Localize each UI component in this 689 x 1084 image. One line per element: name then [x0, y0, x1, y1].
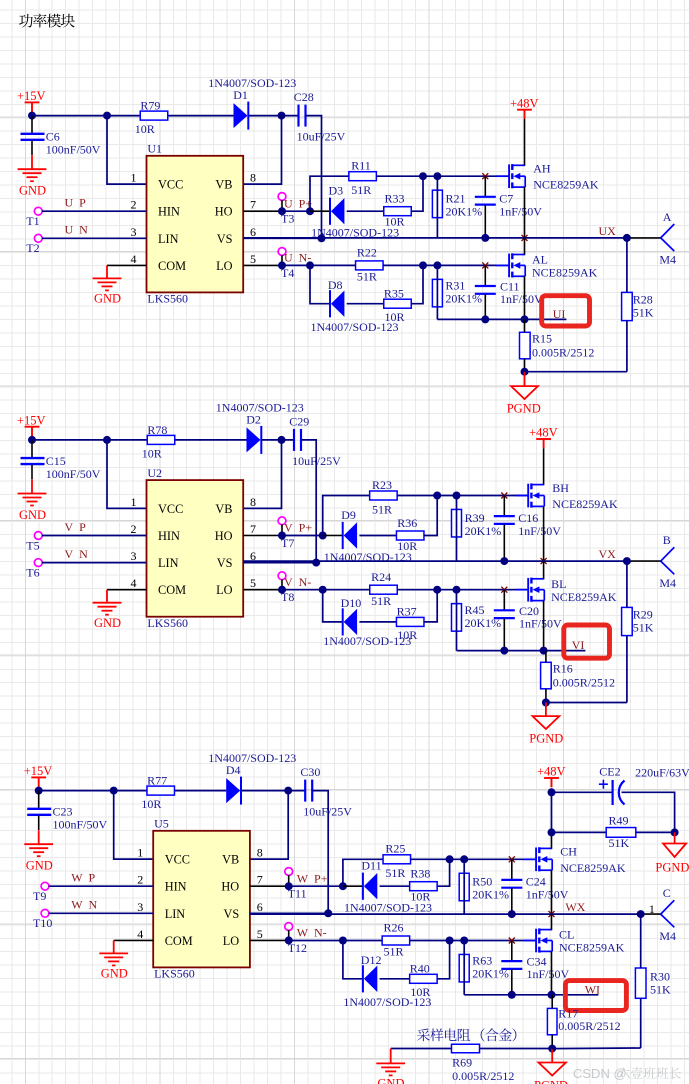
- op-amp driver U2 LKS560: [147, 480, 244, 617]
- transistor BH (NMOS high): [515, 483, 544, 507]
- wire bootstrap to VS: [301, 440, 316, 563]
- svg-text:LIN: LIN: [165, 907, 186, 921]
- power +48V (V phase): [536, 439, 551, 448]
- svg-text:NCE8259AK: NCE8259AK: [552, 497, 618, 511]
- wire sense rail UI: [437, 318, 566, 320]
- svg-text:GND: GND: [377, 1077, 404, 1084]
- svg-text:D11: D11: [361, 859, 381, 873]
- connector C M4: [661, 900, 675, 927]
- wire VB pin8: [243, 440, 281, 509]
- capacitor CE2 (polarized): [599, 780, 625, 805]
- wire diode to cap: [262, 439, 294, 441]
- svg-text:GND: GND: [94, 292, 121, 306]
- wire LO pin5: [243, 255, 282, 265]
- node VX/R bleed (V phase): [623, 557, 631, 565]
- svg-text:1N4007/SOD-123: 1N4007/SOD-123: [323, 634, 411, 648]
- svg-text:U1: U1: [147, 142, 162, 156]
- svg-text:3: 3: [137, 900, 143, 914]
- pin 5 LO: [216, 252, 256, 273]
- node bootstrap/VS (V phase): [312, 559, 320, 567]
- svg-text:WX: WX: [565, 900, 585, 914]
- node CgL bottom (W phase): [508, 991, 516, 999]
- svg-text:AH: AH: [533, 162, 551, 176]
- svg-text:51R: 51R: [372, 502, 392, 516]
- node QL source (U phase): [521, 315, 529, 323]
- svg-text:T5: T5: [26, 538, 39, 552]
- svg-text:10R: 10R: [135, 122, 155, 136]
- svg-text:1: 1: [137, 846, 143, 860]
- svg-text:VCC: VCC: [165, 853, 190, 867]
- svg-text:8: 8: [250, 495, 256, 509]
- junction marker QH source (W phase): [549, 911, 555, 917]
- node VB tap (V phase): [278, 436, 286, 444]
- wire RpL to rail: [463, 941, 465, 995]
- node LO riser (U phase): [306, 261, 314, 269]
- svg-text:5: 5: [257, 927, 263, 941]
- node gateL left (U phase): [419, 261, 427, 269]
- wire R49 line: [552, 831, 675, 833]
- diode D12: [363, 965, 377, 992]
- node LO riser (W phase): [339, 937, 347, 945]
- power +15V (V phase): [25, 427, 40, 440]
- svg-text:LO: LO: [223, 934, 240, 948]
- wire HO to riser: [282, 535, 323, 537]
- node RpH top (V phase): [453, 492, 461, 500]
- svg-text:R22: R22: [357, 246, 377, 260]
- svg-text:B: B: [663, 533, 671, 547]
- wire LO down to DL: [310, 265, 330, 303]
- wire HO to DH: [310, 210, 330, 212]
- svg-text:D4: D4: [226, 763, 241, 777]
- svg-text:R33: R33: [385, 192, 405, 206]
- wire sense rail WI: [464, 994, 598, 996]
- wire diode to cap: [249, 115, 299, 117]
- svg-text:PGND: PGND: [529, 732, 563, 746]
- pin 3 LIN: [137, 900, 185, 921]
- capacitor C24: [501, 859, 522, 914]
- wire HO pin7: [243, 200, 282, 211]
- svg-text:BH: BH: [552, 481, 569, 495]
- wire riser to gateH line: [323, 496, 370, 536]
- svg-text:C29: C29: [289, 414, 309, 428]
- wire VS pin6: [243, 237, 321, 239]
- svg-text:LO: LO: [216, 583, 233, 597]
- node RpL top (U phase): [433, 261, 441, 269]
- svg-text:1N4007/SOD-123: 1N4007/SOD-123: [216, 400, 304, 414]
- svg-text:R25: R25: [385, 842, 405, 856]
- svg-text:5: 5: [250, 576, 256, 590]
- svg-text:4: 4: [131, 252, 137, 266]
- wire +48V to CE2: [552, 791, 612, 793]
- svg-text:LKS560: LKS560: [154, 967, 195, 981]
- wire source QH to UX: [543, 506, 545, 561]
- wire RpL to rail: [436, 265, 438, 319]
- node HO riser (W phase): [339, 882, 347, 890]
- svg-text:M4: M4: [659, 576, 676, 590]
- svg-text:R63: R63: [472, 954, 492, 968]
- svg-text:4: 4: [137, 927, 143, 941]
- ground GND (sense): [376, 1049, 405, 1076]
- svg-text:V P: V P: [65, 520, 87, 534]
- node HO riser (U phase): [306, 207, 314, 215]
- svg-text:D12: D12: [361, 953, 382, 967]
- testpoint T4: [278, 248, 286, 256]
- wire source QH to UX: [551, 870, 553, 914]
- svg-text:R69: R69: [452, 1056, 472, 1070]
- node PGND (U phase): [521, 368, 529, 376]
- svg-text:R38: R38: [410, 867, 430, 881]
- svg-text:1N4007/SOD-123: 1N4007/SOD-123: [344, 901, 432, 915]
- svg-text:PGND: PGND: [507, 402, 541, 416]
- svg-text:R78: R78: [147, 423, 167, 437]
- svg-text:1N4007/SOD-123: 1N4007/SOD-123: [208, 751, 296, 765]
- svg-text:CSDN @: CSDN @: [573, 1066, 627, 1081]
- node CgH bottom (V phase): [500, 557, 508, 565]
- node RpH top (U phase): [433, 172, 441, 180]
- wire VX rail: [243, 560, 627, 562]
- svg-text:+48V: +48V: [510, 96, 539, 110]
- junction marker QH source (V phase): [541, 558, 547, 564]
- node LO (W phase): [285, 936, 293, 944]
- svg-text:GND: GND: [101, 967, 128, 981]
- node RpH top (W phase): [460, 855, 468, 863]
- node CgL bottom (V phase): [500, 647, 508, 655]
- node CgH bottom (U phase): [481, 234, 489, 242]
- resistor R79: [140, 111, 168, 120]
- power +48V (U phase): [517, 110, 532, 119]
- wire RgL right: [397, 589, 437, 591]
- node +15V/C (W phase): [35, 787, 43, 795]
- svg-text:C23: C23: [53, 805, 73, 819]
- junction marker CL gate cap (W phase): [509, 938, 515, 944]
- svg-text:R31: R31: [445, 279, 465, 293]
- wire drain QL to UX: [543, 561, 545, 579]
- svg-text:V N: V N: [65, 547, 89, 561]
- capacitor C29: [294, 429, 301, 451]
- wire RsH to junction riser: [411, 176, 423, 211]
- svg-text:V P+: V P+: [284, 521, 312, 535]
- node HO (W phase): [285, 882, 293, 890]
- svg-text:+15V: +15V: [24, 764, 53, 778]
- wire COM to ground: [107, 264, 147, 266]
- testpoint T3: [278, 193, 286, 201]
- svg-text:VB: VB: [222, 853, 239, 867]
- wire gateH line: [423, 175, 509, 177]
- wire VCC pin1: [107, 116, 147, 185]
- svg-text:1nF/50V: 1nF/50V: [519, 616, 562, 630]
- svg-text:U2: U2: [147, 466, 162, 480]
- svg-text:2: 2: [137, 873, 143, 887]
- resistor R49 (bleed): [606, 828, 636, 838]
- svg-text:VCC: VCC: [158, 178, 183, 192]
- svg-text:2: 2: [131, 522, 137, 536]
- wire VX to R29 to PGND: [626, 561, 628, 702]
- svg-text:HO: HO: [215, 529, 233, 543]
- pin 8 VB: [222, 846, 263, 867]
- junction marker CH gate cap (V phase): [501, 493, 507, 499]
- node R49 left (W): [548, 828, 556, 836]
- wire HIN net U P: [42, 210, 147, 212]
- wire +15V rail: [32, 115, 234, 117]
- svg-text:U5: U5: [154, 817, 169, 831]
- svg-text:T9: T9: [33, 889, 46, 903]
- wire RpL to rail: [456, 590, 458, 651]
- svg-text:R45: R45: [465, 603, 485, 617]
- node gateL left (W phase): [446, 937, 454, 945]
- wire R69 line: [391, 1048, 551, 1050]
- svg-text:C: C: [663, 886, 671, 900]
- svg-text:51R: 51R: [385, 866, 405, 880]
- resistor R11: [349, 172, 377, 181]
- svg-text:C15: C15: [46, 454, 66, 468]
- diode D9: [343, 522, 357, 549]
- junction marker CL gate cap (U phase): [482, 262, 488, 268]
- diode D1: [234, 102, 249, 130]
- connector B M4: [661, 547, 675, 574]
- wire HO to DH: [323, 535, 343, 537]
- capacitor C11: [475, 265, 496, 319]
- svg-text:R16: R16: [553, 662, 573, 676]
- svg-text:LO: LO: [216, 259, 233, 273]
- wire VB pin8: [243, 116, 281, 185]
- diode D2: [247, 426, 262, 454]
- power ground PGND (W phase): [539, 1049, 566, 1076]
- wire VB pin8: [250, 791, 288, 860]
- resistor R40: [410, 974, 438, 983]
- svg-text:0.005R/2512: 0.005R/2512: [553, 676, 615, 690]
- wire drain QH: [524, 119, 526, 165]
- svg-text:100nF/50V: 100nF/50V: [46, 467, 101, 481]
- svg-text:51K: 51K: [650, 982, 671, 996]
- svg-text:R23: R23: [372, 478, 392, 492]
- svg-text:LKS560: LKS560: [147, 292, 188, 306]
- wire PGND link: [525, 371, 627, 373]
- power +15V (W phase): [31, 777, 46, 790]
- wire RpH to UX rail: [436, 176, 438, 238]
- svg-text:GND: GND: [19, 508, 46, 522]
- svg-text:20K1%: 20K1%: [472, 888, 509, 902]
- wire LIN net V N: [42, 562, 147, 564]
- capacitor C16: [494, 496, 515, 562]
- wire UX to R28 to PGND: [626, 238, 628, 372]
- wire diode to cap: [242, 790, 306, 792]
- svg-text:T2: T2: [26, 241, 39, 255]
- capacitor C7: [475, 176, 496, 238]
- wire UX to connector: [627, 237, 661, 239]
- svg-text:1nF/50V: 1nF/50V: [527, 967, 570, 981]
- node VCC tap (W phase): [110, 787, 118, 795]
- wire WX to connector: [641, 913, 661, 915]
- svg-text:R37: R37: [397, 605, 417, 619]
- resistor R38: [410, 882, 438, 891]
- svg-text:R50: R50: [472, 875, 492, 889]
- diode D4: [226, 777, 241, 805]
- node bootstrap/VS (W phase): [324, 909, 332, 917]
- resistor R36: [396, 531, 424, 540]
- power +48V (W phase): [544, 778, 559, 787]
- wire RsL to junction riser: [424, 590, 437, 622]
- svg-text:51K: 51K: [633, 621, 654, 635]
- svg-text:T10: T10: [33, 916, 52, 930]
- svg-text:AL: AL: [532, 253, 548, 267]
- wire DH to RsH: [359, 535, 396, 537]
- svg-text:20K1%: 20K1%: [465, 524, 502, 538]
- wire 48V node to R49 node: [551, 792, 553, 832]
- wire HIN net W P: [49, 885, 154, 887]
- testpoint T10: [41, 909, 49, 917]
- pin 4 COM: [131, 576, 187, 597]
- node CgH bottom (W phase): [508, 910, 516, 918]
- wire gateL line: [437, 589, 527, 591]
- svg-text:R49: R49: [609, 813, 629, 827]
- svg-text:VI: VI: [572, 638, 585, 652]
- wire RsL to junction riser: [437, 941, 449, 979]
- capacitor C23: [27, 791, 51, 830]
- capacitor C30: [305, 780, 312, 802]
- svg-text:VS: VS: [217, 232, 233, 246]
- svg-text:C30: C30: [300, 765, 320, 779]
- wire UX rail: [243, 237, 627, 239]
- svg-text:+15V: +15V: [17, 413, 46, 427]
- svg-text:PGND: PGND: [655, 861, 689, 875]
- wire drain QH: [551, 832, 553, 848]
- pin 8 VB: [215, 495, 256, 516]
- label 采样电阻（合金）: [417, 1028, 516, 1041]
- wire RgL left: [343, 940, 382, 942]
- svg-text:UX: UX: [599, 224, 617, 238]
- resistor R77: [147, 786, 175, 795]
- transistor CL (NMOS low): [523, 928, 552, 952]
- resistor R31: [432, 279, 442, 307]
- capacitor C15: [21, 440, 45, 479]
- wire HO pin7: [243, 524, 282, 535]
- svg-text:1N4007/SOD-123: 1N4007/SOD-123: [208, 76, 296, 90]
- capacitor C6: [21, 116, 45, 155]
- node gateH left (W phase): [446, 855, 454, 863]
- wire VCC pin1: [107, 440, 147, 509]
- svg-text:NCE8259AK: NCE8259AK: [559, 941, 625, 955]
- node HO (U phase): [278, 207, 286, 215]
- ground GND (U phase left): [18, 155, 47, 181]
- svg-text:VS: VS: [223, 907, 239, 921]
- testpoint T2: [34, 234, 42, 242]
- svg-text:1N4007/SOD-123: 1N4007/SOD-123: [343, 995, 431, 1009]
- pin 1 VCC: [137, 846, 190, 867]
- svg-text:GND: GND: [94, 616, 121, 630]
- svg-text:D10: D10: [341, 596, 362, 610]
- node bootstrap/VS (U phase): [318, 234, 326, 242]
- pin 7 HO: [221, 873, 262, 894]
- wire PGND link V: [546, 702, 627, 704]
- svg-text:1nF/50V: 1nF/50V: [500, 292, 543, 306]
- svg-text:R79: R79: [140, 99, 160, 113]
- pin 3 LIN: [131, 225, 179, 246]
- wire source QL to sense rail: [543, 601, 545, 651]
- svg-text:VCC: VCC: [158, 502, 183, 516]
- svg-text:1nF/50V: 1nF/50V: [499, 205, 542, 219]
- svg-text:R26: R26: [384, 921, 404, 935]
- wire bootstrap to VS: [312, 791, 328, 914]
- node WX/R bleed (W phase): [637, 910, 645, 918]
- svg-text:51R: 51R: [357, 270, 377, 284]
- node gateH left (U phase): [419, 172, 427, 180]
- node VCC tap (U phase): [103, 112, 111, 120]
- svg-text:1nF/50V: 1nF/50V: [526, 888, 569, 902]
- svg-text:R39: R39: [465, 511, 485, 525]
- node HO riser (V phase): [319, 532, 327, 540]
- op-amp driver U1 LKS560: [147, 156, 244, 293]
- svg-text:COM: COM: [165, 934, 193, 948]
- wire VS pin6: [250, 912, 328, 914]
- pin 4 COM: [137, 927, 193, 948]
- transistor AL (NMOS low): [496, 253, 525, 277]
- svg-text:VB: VB: [215, 178, 232, 192]
- svg-text:W P: W P: [71, 871, 95, 885]
- pin 7 HO: [215, 522, 256, 543]
- svg-text:LIN: LIN: [158, 556, 179, 570]
- resistor R22: [356, 261, 384, 270]
- svg-text:D3: D3: [329, 184, 344, 198]
- svg-text:R15: R15: [532, 332, 552, 346]
- svg-text:5: 5: [250, 252, 256, 266]
- svg-text:7: 7: [257, 873, 263, 887]
- diode D10: [343, 608, 357, 635]
- wire riser to gateH line: [310, 176, 349, 211]
- node QL source (W phase): [548, 991, 556, 999]
- wire LO down to DL: [323, 590, 343, 622]
- wire LO pin5: [243, 579, 282, 589]
- wire R30 to PGND node: [552, 1047, 641, 1050]
- svg-text:R28: R28: [633, 293, 653, 307]
- ground GND (U phase COM): [93, 265, 122, 290]
- pin 2 HIN: [131, 198, 180, 219]
- pin 5 LO: [216, 576, 256, 597]
- svg-text:R24: R24: [371, 570, 391, 584]
- node CgL bottom (U phase): [481, 315, 489, 323]
- svg-text:C7: C7: [499, 192, 513, 206]
- node VB tap (W phase): [284, 787, 292, 795]
- node LO (U phase): [278, 261, 286, 269]
- svg-text:HO: HO: [215, 205, 233, 219]
- resistor R23: [370, 491, 398, 500]
- pin 6 VS: [223, 900, 262, 921]
- transistor CH (NMOS high): [523, 847, 552, 871]
- node +15V/C (U phase): [28, 112, 36, 120]
- svg-text:VB: VB: [215, 502, 232, 516]
- node HO (V phase): [278, 532, 286, 540]
- svg-text:1N4007/SOD-123: 1N4007/SOD-123: [311, 320, 399, 334]
- node PGND (W phase): [548, 1045, 556, 1053]
- diode D3: [330, 198, 344, 225]
- annotation box WI: [565, 981, 626, 1011]
- testpoint T1: [34, 207, 42, 215]
- ground GND (V phase COM): [93, 590, 122, 615]
- wire RgL right: [410, 940, 450, 942]
- testpoint T6: [34, 559, 42, 567]
- wire WX rail: [250, 913, 641, 915]
- resistor R39: [452, 509, 462, 537]
- ground GND (W phase left): [24, 830, 53, 856]
- node VCC tap (V phase): [103, 436, 111, 444]
- wire HO to riser: [282, 210, 310, 212]
- svg-text:3: 3: [131, 549, 137, 563]
- svg-text:U N-: U N-: [284, 251, 311, 265]
- testpoint T7: [278, 517, 286, 525]
- svg-text:PGND: PGND: [534, 1079, 568, 1084]
- svg-text:LKS560: LKS560: [147, 616, 188, 630]
- svg-text:8: 8: [250, 171, 256, 185]
- wire gateL line: [450, 940, 536, 942]
